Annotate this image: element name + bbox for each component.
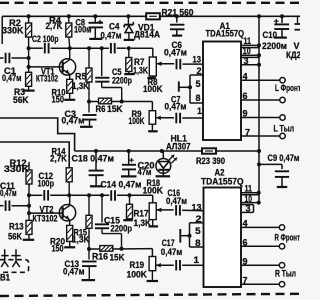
label C3 <box>62 109 85 126</box>
capacitor C14 <box>111 190 115 201</box>
wire supply bus <box>258 16 260 202</box>
label R5 <box>72 71 89 91</box>
pin 10 box of A2 <box>241 194 261 205</box>
svg-text:5: 5 <box>196 79 201 89</box>
ground of R13 <box>23 239 35 241</box>
diode VD2 cut off at edge <box>295 16 301 29</box>
capacitor C18 <box>89 151 104 186</box>
capacitor C1 <box>0 53 29 64</box>
ground of R9 <box>148 130 158 132</box>
potentiometer R19 <box>149 257 156 281</box>
capacitor C4 <box>111 43 115 54</box>
resistor R2 <box>26 16 32 37</box>
label R rear <box>275 269 296 279</box>
potentiometer R8 <box>149 57 156 77</box>
capacitor C7 <box>176 113 203 124</box>
label R23 390 <box>196 156 225 166</box>
label C13 <box>63 259 85 277</box>
capacitor C8 <box>89 16 104 38</box>
ground of bypass cap <box>172 34 182 36</box>
ground of R8 <box>147 77 156 79</box>
transistor VT1 <box>59 48 75 79</box>
svg-text:0,47м: 0,47м <box>0 188 17 198</box>
ground of R20 <box>64 246 75 248</box>
svg-text:150: 150 <box>52 244 64 254</box>
label C10 <box>262 30 287 51</box>
pin 11 wire of A1 <box>241 36 261 47</box>
microphone B1 <box>1 249 20 267</box>
capacitor C16 <box>176 205 203 216</box>
label R19 <box>127 260 148 279</box>
pin 4 wire of A1 <box>241 72 280 82</box>
op-amp U1 body <box>203 42 241 141</box>
label R16 15K <box>92 251 125 262</box>
svg-text:R Тыл: R Тыл <box>275 269 296 279</box>
capacitor C10 <box>274 16 289 37</box>
terminal R rear <box>279 263 284 268</box>
junction dots R6 net <box>87 100 124 104</box>
wire to pins 5 8 <box>179 81 192 91</box>
svg-text:КД2: КД2 <box>286 50 300 60</box>
pin 3 box of A1 <box>241 56 261 67</box>
svg-text:0,47м: 0,47м <box>63 266 85 276</box>
capacitor C5 <box>95 48 122 101</box>
svg-text:4: 4 <box>243 219 248 229</box>
ground of C20 <box>121 175 137 177</box>
label C11 <box>0 181 17 198</box>
label L rear <box>274 123 295 133</box>
svg-text:TDA1557Q: TDA1557Q <box>201 176 244 186</box>
label R4 <box>46 16 63 32</box>
svg-text:1,3K: 1,3K <box>72 234 90 244</box>
junction dots input bus ch1 <box>27 46 31 69</box>
LED HL1 <box>156 151 177 176</box>
svg-text:R13: R13 <box>9 221 24 231</box>
resistor R6 <box>99 98 112 104</box>
label L front <box>275 83 301 93</box>
ground of R7 <box>124 73 135 75</box>
potentiometer R18 <box>149 203 156 226</box>
wire VT2 base <box>29 212 63 214</box>
svg-text:0,47м: 0,47м <box>2 73 22 83</box>
capacitor C20 <box>122 151 136 176</box>
wire R19 wiper <box>156 263 174 267</box>
diode VD1 <box>124 16 133 39</box>
svg-text:1,3K: 1,3K <box>133 65 148 75</box>
label A2 <box>201 167 244 186</box>
capacitor C2 <box>45 43 49 54</box>
svg-text:7: 7 <box>245 127 250 137</box>
label R21 560 <box>162 7 194 17</box>
svg-text:2200p: 2200p <box>111 224 133 234</box>
resistor R4 <box>66 16 72 48</box>
svg-text:56K: 56K <box>8 231 22 241</box>
svg-text:2,7K: 2,7K <box>46 21 63 31</box>
svg-text:6: 6 <box>243 91 248 101</box>
wire R18 wiper <box>156 208 173 212</box>
svg-text:0,47м: 0,47м <box>165 101 187 111</box>
label VT1 <box>36 66 58 83</box>
resistor R15 <box>86 195 92 249</box>
ground of R17 <box>123 219 133 221</box>
label R14 <box>50 146 67 163</box>
transistor VT2 <box>59 195 75 225</box>
junction dots stby line <box>94 149 261 153</box>
terminal L rear <box>280 115 285 120</box>
svg-text:0,47м: 0,47м <box>101 30 122 40</box>
pins 5 8 tie box of A2 <box>190 223 204 248</box>
ground of C8 <box>89 38 102 40</box>
ground of R10 <box>64 99 75 101</box>
junction dots input bus ch2 <box>27 193 31 215</box>
svg-text:C9 0,47м: C9 0,47м <box>268 153 300 163</box>
label HL1 <box>166 133 191 151</box>
svg-text:C18 0,47м: C18 0,47м <box>72 153 115 163</box>
svg-text:4: 4 <box>243 72 248 82</box>
capacitor C6 <box>177 59 204 70</box>
ground of R19 <box>147 280 159 282</box>
resistor R10 <box>67 79 73 99</box>
capacitor C13 <box>82 249 97 279</box>
terminal R rear 2 <box>279 282 284 287</box>
wire R16 net <box>89 249 152 257</box>
wire ch1 input bus <box>28 37 30 72</box>
svg-text:15K: 15K <box>110 252 125 262</box>
label B1 <box>0 272 10 282</box>
svg-text:R17: R17 <box>134 208 149 218</box>
pin 11 wire of A2 <box>241 184 261 195</box>
junction dots ch1 signal line <box>68 46 131 50</box>
pin 6 wire of A1 <box>241 91 280 101</box>
junction dots ch2 signal line <box>67 193 104 197</box>
svg-text:0,47м: 0,47м <box>166 196 187 206</box>
pin 2 of A2 <box>196 214 202 224</box>
resistor R14 <box>66 168 72 196</box>
svg-text:R23 390: R23 390 <box>196 156 225 166</box>
svg-text:L Фронт: L Фронт <box>275 83 300 93</box>
svg-text:TDA1557Q: TDA1557Q <box>206 28 245 38</box>
pin 7 wire of A2 <box>241 276 279 286</box>
label C6 <box>164 40 187 58</box>
svg-text:100м: 100м <box>74 24 92 34</box>
resistor R5 <box>86 48 92 101</box>
pin 13 of A1 <box>193 54 202 64</box>
label C18 0,47м <box>72 153 115 163</box>
svg-text:7: 7 <box>243 276 248 286</box>
svg-text:2200p: 2200p <box>112 76 132 86</box>
svg-text:6: 6 <box>243 238 248 248</box>
label C20 <box>138 160 155 177</box>
resistor R3 <box>26 72 32 90</box>
wire ch2 signal line <box>69 195 153 203</box>
svg-text:0,47м: 0,47м <box>161 247 183 257</box>
ground of HL1 <box>156 175 171 177</box>
capacitor C15 <box>95 195 122 249</box>
label C15 <box>104 215 132 233</box>
resistor R7 <box>126 48 132 73</box>
svg-text:100K: 100K <box>129 116 145 126</box>
dashed border bottom <box>0 294 300 296</box>
label R13 <box>8 221 24 241</box>
svg-text:15K: 15K <box>107 104 123 114</box>
pin 3 box of A2 <box>241 204 254 214</box>
wire ch1 signal line <box>70 48 153 57</box>
ground of C3 <box>80 126 93 128</box>
wire C12 net <box>29 194 69 196</box>
potentiometer R9 <box>149 111 156 131</box>
svg-text:330K: 330K <box>2 26 24 36</box>
label R front <box>275 233 301 243</box>
svg-text:9: 9 <box>243 257 248 267</box>
svg-text:10: 10 <box>243 46 251 56</box>
svg-text:C2 100p: C2 100p <box>32 34 59 44</box>
pin 9 wire of A2 <box>241 257 279 267</box>
svg-text:C10: C10 <box>263 30 278 40</box>
svg-text:1,3K: 1,3K <box>72 81 89 91</box>
svg-text:11: 11 <box>244 36 252 46</box>
label VT2 <box>33 204 58 223</box>
label R18 <box>143 178 164 195</box>
terminal R front <box>279 225 284 230</box>
pins 5 8 tie box of A1 <box>190 75 203 103</box>
ground of C10 <box>274 36 287 38</box>
svg-text:10: 10 <box>245 194 253 204</box>
resistor R12 <box>26 162 32 186</box>
svg-text:13: 13 <box>193 54 202 64</box>
wire C2 net <box>29 47 70 49</box>
terminal L front <box>280 78 285 83</box>
dashed border top <box>0 2 300 4</box>
ground of R3 <box>23 89 35 91</box>
resistor R20 <box>67 225 73 246</box>
pin 1 of A1 <box>197 106 202 116</box>
svg-text:8: 8 <box>195 238 201 248</box>
svg-text:КТ3102: КТ3102 <box>36 73 58 83</box>
ground of VD1 <box>124 39 134 41</box>
svg-text:100K: 100K <box>143 84 163 94</box>
label R12 <box>4 158 30 174</box>
svg-text:R Фронт: R Фронт <box>275 233 301 243</box>
resistor R13 <box>26 220 32 239</box>
svg-text:В1: В1 <box>0 272 10 282</box>
svg-text:R6: R6 <box>96 104 106 114</box>
svg-text:КТ3102: КТ3102 <box>33 213 58 223</box>
wire +supply rail <box>2 16 300 44</box>
svg-text:47м: 47м <box>138 167 152 177</box>
pin 7 wire of A1 <box>241 127 280 137</box>
svg-text:5: 5 <box>195 226 201 236</box>
resistor R16 <box>100 246 113 252</box>
capacitor C12 <box>44 190 48 201</box>
label R10 <box>52 88 66 105</box>
terminal R front 2 <box>279 244 284 249</box>
svg-text:3: 3 <box>244 56 249 66</box>
svg-text:150: 150 <box>52 95 65 105</box>
pin 10 box of A1 <box>241 46 261 57</box>
pin 6 wire of A2 <box>241 238 279 248</box>
label A1 <box>206 21 245 39</box>
svg-text:1: 1 <box>194 255 200 265</box>
pin 13 of A2 <box>192 202 202 212</box>
svg-text:2200м: 2200м <box>262 41 287 51</box>
svg-text:100K: 100K <box>127 269 148 279</box>
pin 1 of A2 <box>194 255 200 265</box>
resistor R17 <box>127 195 133 219</box>
label VD1 <box>134 22 160 39</box>
label C12 <box>38 171 55 189</box>
svg-text:9: 9 <box>243 109 248 119</box>
capacitor C11 <box>0 200 29 211</box>
wire VT1 base <box>29 66 63 68</box>
svg-text:C14 0,47м: C14 0,47м <box>101 179 142 189</box>
junction dots R16 net <box>87 247 124 251</box>
svg-text:Д814А: Д814А <box>134 29 160 39</box>
svg-text:1: 1 <box>197 106 202 116</box>
wire to pins 5 8 of A2 <box>180 229 191 243</box>
resistor R21 <box>146 13 160 19</box>
junction dots on rail <box>27 14 284 18</box>
resistor R23 <box>202 148 216 153</box>
wire ch2 input bus <box>28 185 30 220</box>
label C14 0,47м <box>101 179 142 189</box>
svg-text:R5: R5 <box>75 71 87 81</box>
capacitor C9 <box>257 162 289 186</box>
label R7 <box>133 57 148 76</box>
dashed box of B1 <box>0 260 29 273</box>
ground of C18 <box>90 185 103 187</box>
ground of R18 <box>149 225 159 227</box>
terminal L front 2 <box>280 97 285 102</box>
svg-text:56K: 56K <box>13 95 29 105</box>
pin 9 wire of A1 <box>241 109 280 119</box>
svg-text:11: 11 <box>245 184 253 194</box>
svg-text:100K: 100K <box>143 185 164 195</box>
svg-text:R16: R16 <box>92 251 108 261</box>
label C9 0,47м <box>268 153 300 163</box>
label C1 <box>2 66 22 83</box>
svg-text:L Тыл: L Тыл <box>274 123 295 133</box>
svg-text:3: 3 <box>246 204 251 214</box>
label R6 15K <box>96 104 123 114</box>
label R17 <box>134 208 152 228</box>
svg-text:АЛ307: АЛ307 <box>166 141 191 151</box>
label R15 <box>72 227 90 244</box>
label C16 <box>166 188 187 206</box>
capacitor C6a bypass under R21 <box>170 16 185 34</box>
label C5 <box>112 67 132 86</box>
wire stby line <box>75 150 259 152</box>
svg-text:100p: 100p <box>38 178 55 188</box>
label R3 <box>13 87 29 105</box>
svg-text:0,47м: 0,47м <box>62 116 85 126</box>
svg-text:2,7K: 2,7K <box>50 153 67 163</box>
wire R6 net <box>89 102 152 111</box>
label R20 <box>50 236 65 253</box>
label C2 100p <box>32 34 59 44</box>
capacitor C17 <box>176 260 203 271</box>
pin 2 of A1 <box>197 66 202 76</box>
label C4 <box>101 21 122 40</box>
label C7 <box>165 94 187 111</box>
svg-text:0,47м: 0,47м <box>164 48 187 58</box>
ground of C9 <box>277 186 288 188</box>
junction dot R17 top <box>128 193 132 197</box>
label VD2 <box>286 41 301 60</box>
terminal L rear 2 <box>280 133 285 138</box>
label R2 <box>2 18 24 36</box>
svg-text:330K: 330K <box>4 164 30 174</box>
svg-text:8: 8 <box>196 93 201 103</box>
wire R8 wiper <box>156 62 174 66</box>
capacitor C3 <box>83 102 97 126</box>
wire stby ladder <box>0 118 75 168</box>
wire R9 wiper <box>156 116 174 120</box>
ground of C13 <box>82 279 96 281</box>
op-amp U2 body <box>204 188 242 288</box>
label R8 <box>143 77 163 94</box>
label R9 <box>129 109 145 126</box>
pin 4 wire of A2 <box>241 219 279 229</box>
svg-text:13: 13 <box>192 202 202 212</box>
label C17 <box>161 238 183 257</box>
label C8 <box>74 17 92 34</box>
